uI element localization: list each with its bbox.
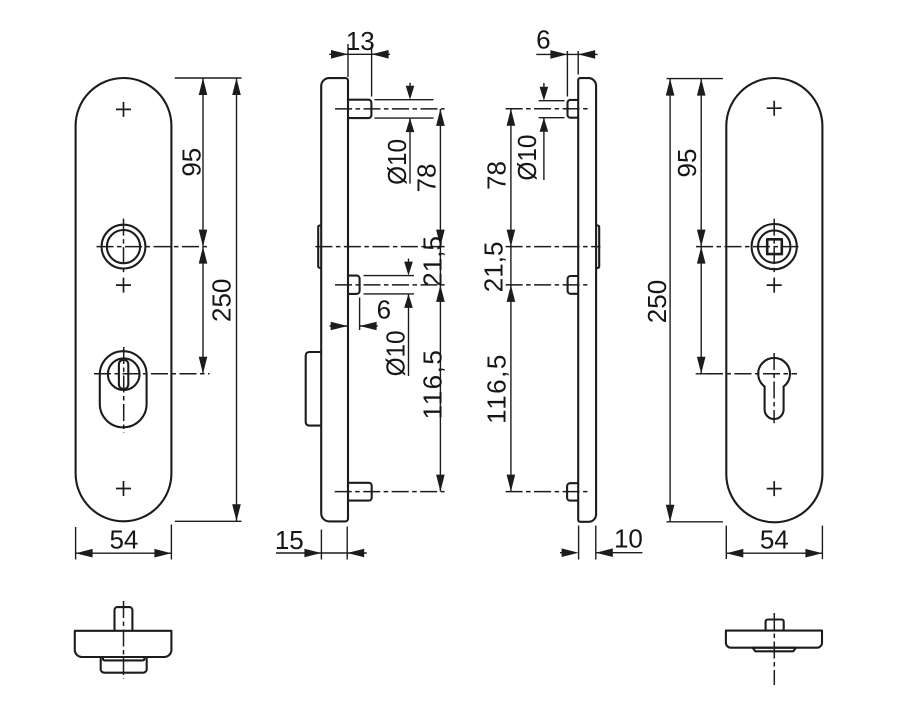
arrow 250 bottom <box>232 504 241 521</box>
arrow d10 bottom-up (10mm side view) <box>540 118 549 132</box>
extension line 13 left <box>347 44 349 77</box>
bottom-left cylinder bump outer <box>101 657 147 673</box>
handle hole center line horizontal (left plate) <box>97 246 210 248</box>
bottom-left cylinder bump inner ledge <box>103 657 144 660</box>
dimension line 15 <box>276 552 367 554</box>
extension lines diameter 10 (10mm side view) <box>539 101 565 118</box>
handle hole outer circle (left plate) <box>102 225 146 269</box>
extension line 15 right <box>346 527 348 560</box>
cylinder key slot (left plate) <box>119 360 128 389</box>
screw cross top (right plate) <box>767 101 782 116</box>
handle hole inner circle (right plate) <box>758 230 790 262</box>
extension lines diameter 10 middle stud <box>364 276 415 294</box>
cylinder bore circle (left plate) <box>108 358 140 390</box>
svg-text:116,5: 116,5 <box>482 353 512 424</box>
top screw stud 13mm (15mm side view) <box>348 100 371 118</box>
handle hole center line horizontal (right plate) <box>696 246 802 248</box>
extension line bottom (left plate) <box>175 520 242 522</box>
spindle square 8mm (right plate) <box>767 239 782 254</box>
cylinder center line vertical (left plate) <box>123 347 125 433</box>
extension line 6 (middle stud) <box>359 298 361 331</box>
arrow 6 left <box>331 322 348 331</box>
arrow 6 right <box>360 322 377 331</box>
arrow chain bottom <box>199 357 208 374</box>
extension line bottom (right plate) <box>667 521 723 523</box>
side view 10mm body outline <box>578 78 596 522</box>
arrow 54 right (right plate) <box>805 549 822 558</box>
svg-text:10: 10 <box>614 523 643 553</box>
extension line 54 right (left plate) <box>170 525 172 560</box>
dimension line 13 <box>329 53 390 55</box>
arrow 54 right <box>154 549 171 558</box>
left plate front view outline <box>76 78 172 521</box>
arrow 6 left (10mm side view) <box>550 50 567 59</box>
dimension line 95 (right plate) <box>700 79 702 247</box>
arrow 21,5 bottom / 116,5 top <box>436 285 445 302</box>
dimension line 6 (middle stud) <box>330 325 378 327</box>
dimension diameter 10 middle stud tail <box>408 259 410 377</box>
arrow chain top (right plate) <box>697 247 706 264</box>
bottom-right cylinder strip <box>753 648 796 652</box>
bottom screw stud 13mm (15mm side view) <box>348 483 372 501</box>
right plate front view outline <box>726 78 822 522</box>
arrow 78 bottom / 21,5 top <box>436 230 445 247</box>
arrow d10 mid top-down <box>404 262 413 276</box>
bottom-left center line <box>123 601 125 679</box>
extension line top (right plate) <box>667 78 723 80</box>
keyhole center line vertical (right plate) <box>773 353 775 423</box>
svg-text:15: 15 <box>275 525 304 555</box>
svg-text:Ø10: Ø10 <box>512 135 542 181</box>
keyhole center line horizontal (right plate) <box>706 373 797 375</box>
extension line top (left plate) <box>175 77 242 79</box>
arrow 78 top (10mm side view) <box>507 109 516 126</box>
arrow 21,5 bottom / 116,5 top (10mm side view) <box>507 285 516 302</box>
dimension line 78 21,5 116,5 (10mm side view) <box>510 109 512 492</box>
arrow 95 top <box>199 78 208 95</box>
dimension line 250 (right plate) <box>669 79 671 522</box>
svg-text:250: 250 <box>207 279 237 322</box>
extension line chain bottom (right plate) <box>696 373 707 375</box>
dimension line 78 21,5 116,5 (15mm side view) <box>439 109 441 492</box>
center line bottom stud (10mm side view) <box>506 491 588 493</box>
svg-text:95: 95 <box>672 149 702 178</box>
center line top stud (10mm side view) <box>506 108 588 110</box>
arrow chain top <box>199 247 208 264</box>
bottom-right stud <box>766 620 784 631</box>
svg-text:21,5: 21,5 <box>417 236 447 287</box>
arrow 95 top (right plate) <box>697 79 706 96</box>
center line spindle (10mm side view) <box>506 246 601 248</box>
arrow 13 right <box>372 50 389 59</box>
arrow chain bottom (right plate) <box>697 357 706 374</box>
handle hole inner circle (left plate) <box>107 230 140 263</box>
dimension diameter 10 tails (10mm side view) <box>543 83 545 180</box>
arrow 95 bottom <box>199 230 208 247</box>
middle stud 6mm (15mm side view) <box>348 276 360 294</box>
svg-text:54: 54 <box>109 525 138 555</box>
arrow d10 bottom-up <box>406 118 415 132</box>
arrow 10 right <box>596 548 613 557</box>
center line spindle (15mm side view) <box>315 246 444 248</box>
dimension diameter 10 top stud tail <box>409 83 411 184</box>
svg-text:13: 13 <box>346 26 375 56</box>
cylinder center line horizontal (left plate) <box>94 373 210 375</box>
extension line 15 left <box>320 530 322 560</box>
arrow 10 left <box>562 548 579 557</box>
arrow 54 left (right plate) <box>726 549 743 558</box>
arrow 15 right <box>347 549 364 558</box>
svg-text:78: 78 <box>482 161 512 190</box>
spindle hub sliver (10mm side view) <box>596 226 599 268</box>
screw cross middle (left plate) <box>116 278 131 293</box>
arrow 15 left <box>304 549 321 558</box>
handle hole center line vertical (left plate) <box>123 219 125 275</box>
arrow d10 mid bottom-up <box>404 294 413 308</box>
svg-text:78: 78 <box>412 164 442 193</box>
center line middle stud (10mm side view) <box>506 284 588 286</box>
svg-text:Ø10: Ø10 <box>382 139 412 185</box>
cylinder housing bump (15mm side view) <box>306 352 322 426</box>
svg-text:54: 54 <box>760 525 789 555</box>
svg-text:6: 6 <box>377 295 391 325</box>
center line top stud (15mm side view) <box>335 108 445 110</box>
dimension line 250 (left plate) <box>236 78 238 521</box>
svg-text:Ø10: Ø10 <box>381 330 411 376</box>
screw cross middle (right plate) <box>767 278 782 293</box>
bottom-left stud <box>115 607 133 631</box>
spindle hub sliver (15mm side view) <box>318 226 321 268</box>
bottom stud 6mm (10mm side view) <box>567 483 578 500</box>
arrow 116,5 bottom <box>436 475 445 492</box>
center line bottom stud (15mm side view) <box>335 491 445 493</box>
arrow 78 top <box>436 109 445 126</box>
bottom-right top view plate bar <box>726 631 822 648</box>
arrow d10 top-down (10mm side view) <box>540 87 549 101</box>
arrow 78 bottom / 21,5 top (10mm side view) <box>507 230 516 247</box>
screw cross bottom (right plate) <box>767 481 782 496</box>
arrow 250 top (right plate) <box>666 79 675 96</box>
dimension line 95 (left plate) <box>202 78 204 247</box>
extension line 13 right <box>371 44 373 97</box>
arrow 250 bottom (right plate) <box>666 505 675 522</box>
arrow 6 right (10mm side view) <box>578 50 595 59</box>
dimension line 54 (left plate) <box>76 552 172 554</box>
dimension line 10 <box>560 552 642 554</box>
extension line 54 right (right plate) <box>821 526 823 559</box>
svg-text:95: 95 <box>176 148 206 177</box>
extension line 54 left (right plate) <box>725 526 727 559</box>
dimension line 72 chain (right plate) <box>700 247 702 374</box>
dimension line 54 (right plate) <box>726 552 822 554</box>
extension line 54 left (left plate) <box>75 527 77 560</box>
extension line 6 left (10mm side view) <box>566 51 568 97</box>
arrow 13 left <box>331 50 348 59</box>
arrow 95 bottom (right plate) <box>697 230 706 247</box>
side view 15mm body outline <box>321 78 348 521</box>
dimension line 6 (10mm side view) <box>536 53 597 55</box>
middle stud 6mm (10mm side view) <box>568 276 579 294</box>
arrow 116,5 bottom (10mm side view) <box>507 475 516 492</box>
extension lines diameter 10 top stud <box>375 100 434 118</box>
extension line 10 left <box>578 526 580 560</box>
extension line 6 right (10mm side view) <box>577 51 579 75</box>
cylinder oval recess (left plate) <box>100 351 147 427</box>
handle hole center line vertical (right plate) <box>773 219 775 274</box>
arrow d10 top-down <box>406 86 415 100</box>
handle hole outer circle (right plate) <box>752 224 797 269</box>
arrow 250 top <box>232 78 241 95</box>
cylinder keyhole profile (right plate) <box>758 358 790 419</box>
bottom-left top view plate bar <box>75 631 172 657</box>
top stud 6mm (10mm side view) <box>568 100 579 118</box>
bottom-right center line <box>773 613 775 685</box>
center line middle stud (15mm side view) <box>335 284 445 286</box>
svg-text:21,5: 21,5 <box>479 242 509 293</box>
screw cross top (left plate) <box>116 102 131 117</box>
dimension line 72 chain (left plate) <box>202 247 204 374</box>
arrow 54 left <box>76 549 93 558</box>
svg-text:116,5: 116,5 <box>417 349 447 420</box>
screw cross bottom (left plate) <box>116 481 131 496</box>
extension line 10 right <box>595 526 597 560</box>
svg-text:6: 6 <box>536 25 550 55</box>
svg-text:250: 250 <box>642 280 672 323</box>
